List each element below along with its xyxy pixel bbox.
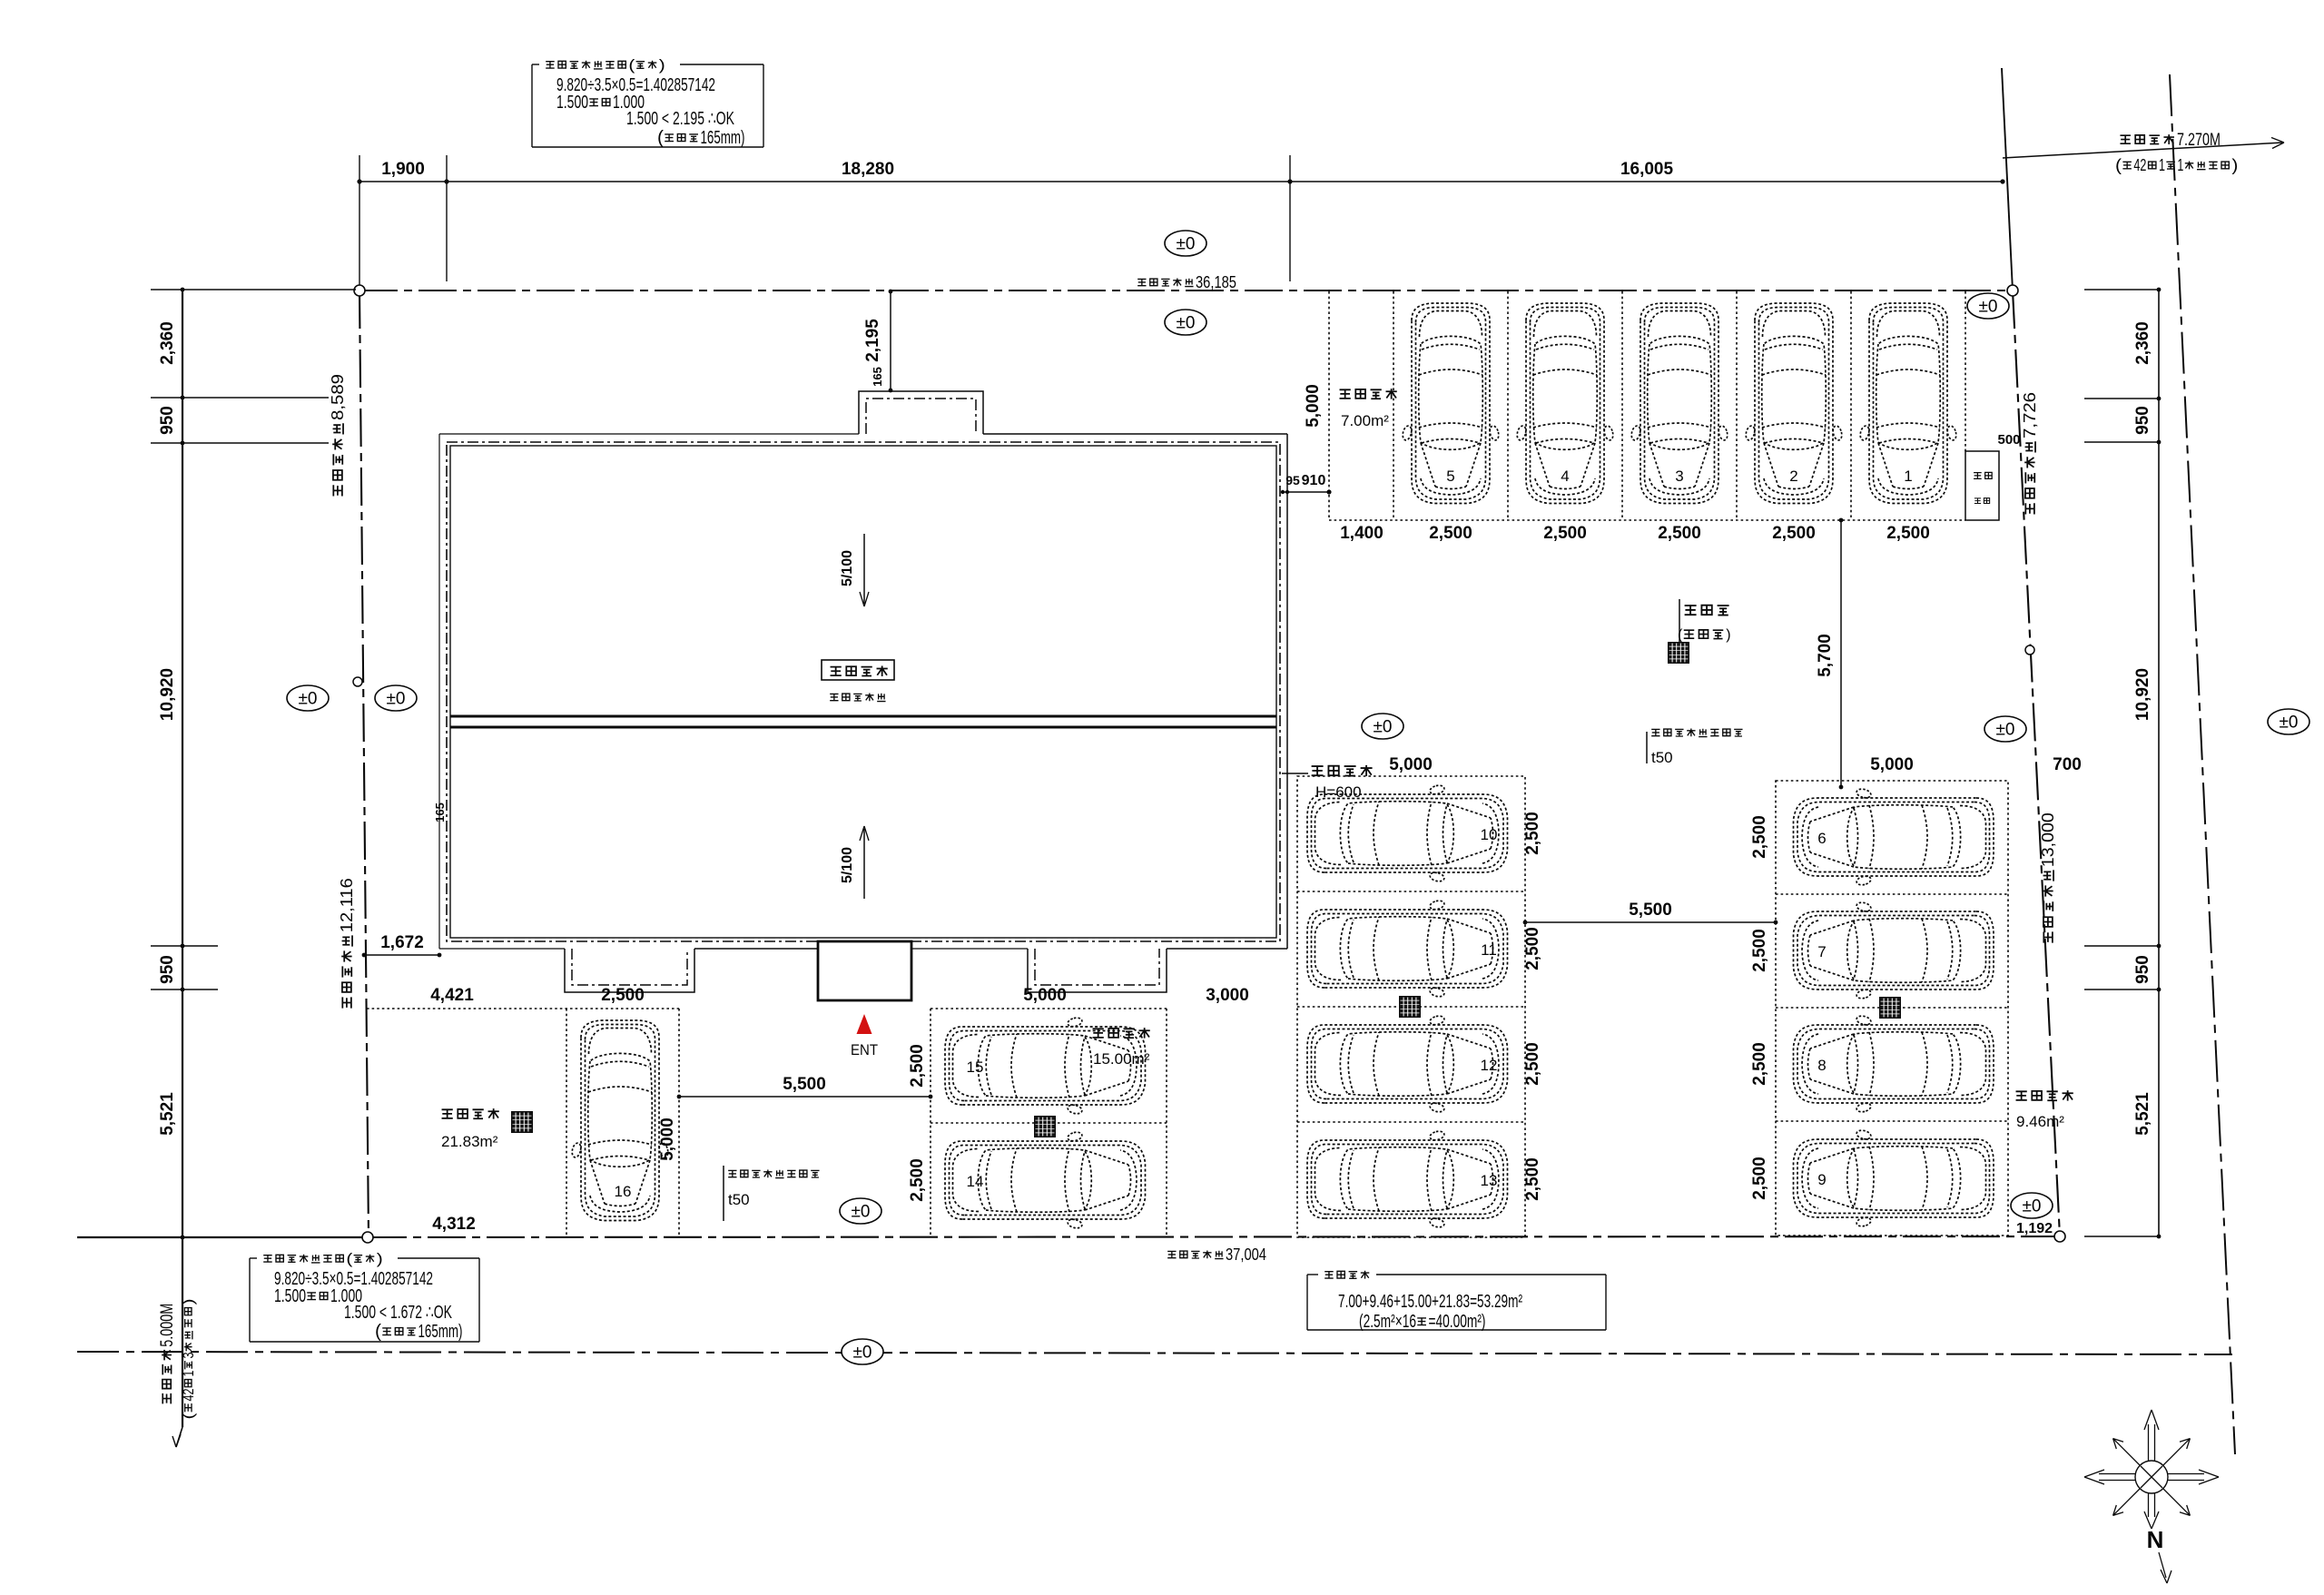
svg-text:5,521: 5,521: [158, 1092, 177, 1136]
svg-text:7,726: 7,726: [2021, 392, 2039, 438]
svg-text:±0: ±0: [387, 690, 406, 709]
svg-text:t50: t50: [728, 1191, 750, 1208]
svg-text:7.00m²: 7.00m²: [1341, 412, 1389, 429]
svg-text:950: 950: [2133, 406, 2152, 435]
svg-text:16: 16: [615, 1183, 632, 1200]
svg-text:2,500: 2,500: [1429, 524, 1472, 543]
svg-text:165mm): 165mm): [701, 128, 745, 148]
svg-text:(: (: [657, 128, 664, 148]
svg-text:4,421: 4,421: [430, 986, 474, 1005]
svg-text:N: N: [2147, 1526, 2164, 1553]
svg-text:8: 8: [1817, 1057, 1826, 1074]
svg-text:165mm): 165mm): [419, 1322, 463, 1342]
svg-text:5,500: 5,500: [1629, 901, 1672, 920]
svg-text:16,005: 16,005: [1620, 160, 1674, 179]
svg-text:): ): [659, 56, 665, 74]
svg-text:2,360: 2,360: [2133, 321, 2152, 365]
svg-text:1,672: 1,672: [380, 933, 424, 952]
svg-text:2,500: 2,500: [1750, 929, 1769, 972]
svg-text:15.00m²: 15.00m²: [1093, 1050, 1150, 1068]
svg-text:(: (: [180, 1413, 197, 1419]
svg-text:±0: ±0: [1979, 298, 1998, 317]
svg-text:5,500: 5,500: [783, 1075, 826, 1094]
svg-text:1.500 < 1.672 ∴OK: 1.500 < 1.672 ∴OK: [344, 1303, 452, 1323]
svg-text:7.270M: 7.270M: [2177, 131, 2221, 150]
svg-text:5,000: 5,000: [1389, 755, 1433, 774]
svg-text:2,500: 2,500: [1750, 1157, 1769, 1200]
svg-text:5/100: 5/100: [840, 847, 855, 883]
svg-text:165: 165: [871, 367, 884, 387]
svg-text:3: 3: [1675, 468, 1683, 485]
svg-text:2,500: 2,500: [908, 1044, 927, 1088]
svg-text:950: 950: [158, 406, 177, 435]
svg-text:5,000: 5,000: [1023, 986, 1067, 1005]
svg-text:42: 42: [2133, 156, 2146, 174]
svg-text:3: 3: [180, 1353, 197, 1359]
svg-text:±0: ±0: [1996, 721, 2015, 740]
svg-text:1,400: 1,400: [1340, 524, 1384, 543]
svg-text:13,000: 13,000: [2039, 812, 2057, 867]
svg-text:2,360: 2,360: [158, 321, 177, 365]
svg-text:2,500: 2,500: [1886, 524, 1930, 543]
svg-text:1.500 < 2.195 ∴OK: 1.500 < 2.195 ∴OK: [626, 109, 734, 129]
svg-text:700: 700: [2053, 755, 2082, 774]
svg-text:9.46m²: 9.46m²: [2016, 1113, 2064, 1130]
svg-text:±0: ±0: [1177, 235, 1196, 254]
svg-text:1.500: 1.500: [274, 1286, 306, 1306]
svg-text:±0: ±0: [299, 690, 318, 709]
svg-text:1: 1: [180, 1371, 197, 1377]
svg-text:36,185: 36,185: [1196, 273, 1236, 291]
svg-text:2,500: 2,500: [1772, 524, 1816, 543]
svg-text:): ): [377, 1250, 383, 1267]
svg-text:±0: ±0: [1177, 314, 1196, 333]
svg-text:2,500: 2,500: [601, 986, 645, 1005]
svg-text:950: 950: [2133, 955, 2152, 984]
svg-text:5,000: 5,000: [1304, 384, 1323, 428]
svg-text:6: 6: [1817, 830, 1826, 847]
svg-text:95: 95: [1285, 473, 1300, 487]
svg-text:): ): [180, 1299, 197, 1305]
svg-text:1.500: 1.500: [556, 93, 588, 113]
svg-text:4,312: 4,312: [432, 1215, 476, 1234]
svg-text:5,000: 5,000: [658, 1117, 677, 1161]
svg-text:2,500: 2,500: [1658, 524, 1701, 543]
svg-text:9: 9: [1817, 1171, 1826, 1188]
svg-text:7.00+9.46+15.00+21.83=53.29m²: 7.00+9.46+15.00+21.83=53.29m²: [1338, 1292, 1522, 1312]
svg-text:): ): [2231, 156, 2238, 174]
svg-text:(: (: [346, 1250, 352, 1267]
svg-text:165: 165: [433, 802, 447, 822]
svg-text:2,500: 2,500: [1523, 812, 1542, 855]
svg-text:21.83m²: 21.83m²: [441, 1133, 498, 1150]
svg-text:1: 1: [1904, 468, 1912, 485]
svg-text:1: 1: [2177, 156, 2183, 174]
svg-text:2,500: 2,500: [1523, 927, 1542, 970]
svg-text:12,116: 12,116: [338, 878, 356, 932]
svg-text:3,000: 3,000: [1206, 986, 1249, 1005]
svg-text:15: 15: [967, 1058, 984, 1076]
svg-text:18,280: 18,280: [842, 160, 894, 179]
svg-text:950: 950: [158, 955, 177, 984]
svg-text:(: (: [375, 1322, 381, 1342]
svg-text:910: 910: [1302, 473, 1326, 488]
svg-text:1,900: 1,900: [381, 160, 425, 179]
svg-text:±0: ±0: [1374, 718, 1393, 737]
svg-text:10: 10: [1481, 826, 1498, 843]
svg-text:5.000M: 5.000M: [158, 1304, 177, 1347]
svg-text:(2.5m²×16: (2.5m²×16: [1359, 1312, 1416, 1332]
svg-text:10,920: 10,920: [2133, 668, 2152, 721]
svg-text:5/100: 5/100: [840, 550, 855, 586]
svg-text:7: 7: [1817, 943, 1826, 960]
svg-text:5: 5: [1446, 468, 1454, 485]
svg-text:2: 2: [1789, 468, 1797, 485]
svg-text:2,500: 2,500: [1543, 524, 1587, 543]
svg-text:42: 42: [180, 1389, 197, 1402]
svg-text:13: 13: [1481, 1172, 1498, 1189]
svg-text:11: 11: [1481, 941, 1497, 959]
svg-text:4: 4: [1561, 468, 1569, 485]
svg-text:2,500: 2,500: [1523, 1042, 1542, 1086]
svg-text:±0: ±0: [2280, 714, 2299, 733]
svg-text:±0: ±0: [2023, 1197, 2042, 1216]
svg-text:5,700: 5,700: [1816, 634, 1835, 677]
svg-text:1: 1: [2159, 156, 2165, 174]
svg-text:ENT: ENT: [851, 1041, 878, 1058]
svg-text:(: (: [2115, 156, 2122, 174]
svg-text:(: (: [628, 56, 635, 74]
svg-text:8,589: 8,589: [329, 374, 347, 420]
svg-text:2,500: 2,500: [1750, 1042, 1769, 1086]
svg-text:±0: ±0: [852, 1203, 871, 1222]
svg-text:2,500: 2,500: [908, 1158, 927, 1202]
svg-text:12: 12: [1481, 1057, 1498, 1074]
svg-text:14: 14: [967, 1173, 984, 1190]
svg-text:(: (: [1678, 627, 1683, 643]
svg-text:1,192: 1,192: [2016, 1221, 2053, 1236]
svg-text:=40.00m²): =40.00m²): [1429, 1312, 1486, 1332]
svg-text:500: 500: [1997, 432, 2020, 448]
svg-text:2,195: 2,195: [863, 319, 882, 362]
svg-text:5,521: 5,521: [2133, 1092, 2152, 1136]
svg-text:): ): [1726, 627, 1730, 643]
svg-text:5,000: 5,000: [1870, 755, 1914, 774]
svg-text:37,004: 37,004: [1226, 1245, 1266, 1264]
svg-text:2,500: 2,500: [1750, 815, 1769, 859]
svg-text:2,500: 2,500: [1523, 1157, 1542, 1201]
svg-text:10,920: 10,920: [158, 668, 177, 721]
svg-text:t50: t50: [1651, 749, 1673, 766]
svg-text:±0: ±0: [853, 1344, 872, 1363]
